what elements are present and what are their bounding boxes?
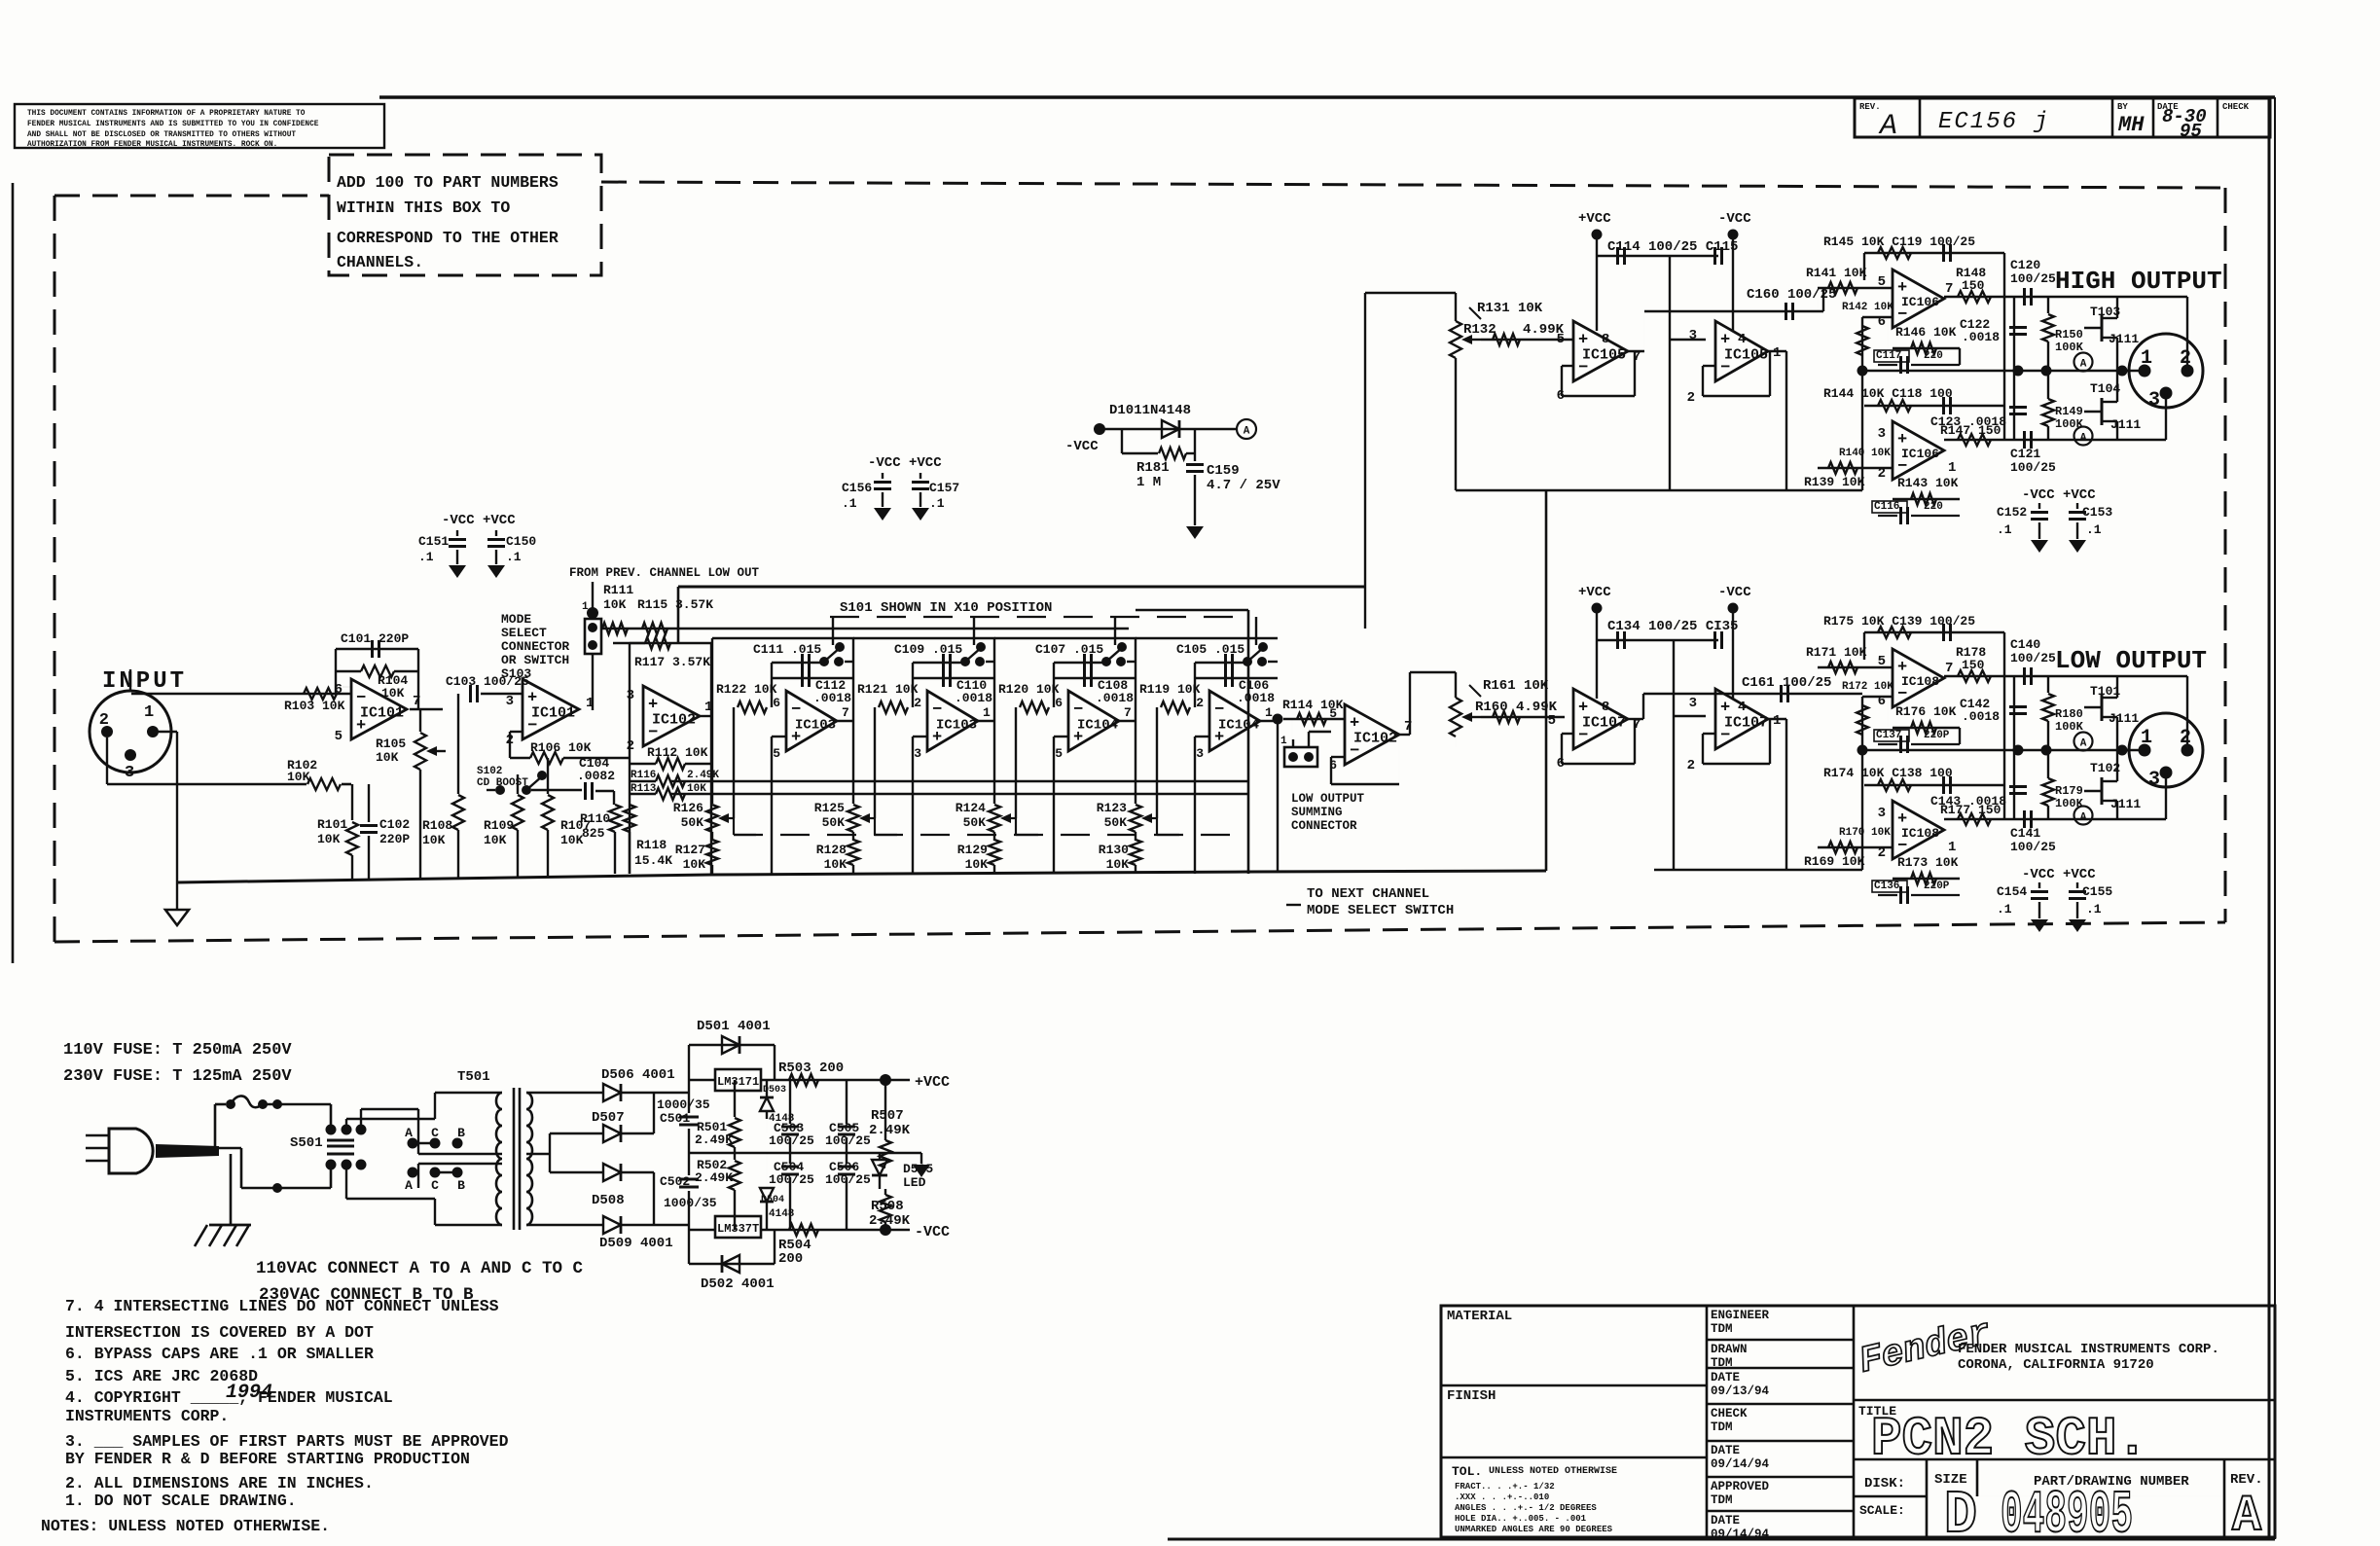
svg-text:10K: 10K [422, 833, 446, 847]
svg-text:A: A [2080, 738, 2087, 750]
svg-text:5: 5 [1548, 713, 1556, 729]
svg-text:FROM PREV. CHANNEL LOW OUT: FROM PREV. CHANNEL LOW OUT [569, 566, 760, 580]
svg-text:100K: 100K [2055, 341, 2084, 354]
svg-text:3: 3 [1878, 806, 1886, 821]
svg-text:R122 10K: R122 10K [716, 682, 777, 697]
svg-text:C159: C159 [1207, 463, 1240, 479]
svg-text:C107 .015: C107 .015 [1035, 642, 1103, 657]
svg-text:ANGLES . . .+.- 1/2 DEGREES: ANGLES . . .+.- 1/2 DEGREES [1455, 1503, 1597, 1513]
svg-text:S103: S103 [501, 666, 531, 681]
svg-text:HIGH OUTPUT: HIGH OUTPUT [2055, 267, 2222, 296]
svg-text:2: 2 [1687, 390, 1695, 406]
svg-text:C501: C501 [660, 1111, 690, 1126]
svg-text:1: 1 [144, 703, 154, 722]
svg-text:C134 100/25 CI35: C134 100/25 CI35 [1607, 619, 1738, 634]
svg-text:50K: 50K [822, 815, 846, 830]
svg-text:C117: C117 [1876, 350, 1901, 362]
svg-text:R171 10K: R171 10K [1806, 645, 1867, 660]
svg-text:1000/35: 1000/35 [664, 1196, 717, 1210]
svg-text:95: 95 [2180, 121, 2202, 142]
svg-text:.1: .1 [1997, 902, 2012, 917]
svg-text:R143 10K: R143 10K [1897, 476, 1959, 490]
svg-text:R140 10K: R140 10K [1839, 448, 1891, 459]
svg-text:R175 10K C139 100/25: R175 10K C139 100/25 [1823, 614, 1975, 629]
svg-text:100K: 100K [2055, 417, 2084, 431]
svg-text:CHECK: CHECK [2222, 102, 2250, 112]
svg-text:IC101: IC101 [531, 704, 575, 721]
svg-text:-VCC: -VCC [915, 1224, 950, 1240]
svg-text:R116: R116 [631, 770, 656, 781]
svg-text:6: 6 [1055, 696, 1063, 710]
svg-text:S101 SHOWN IN X10 POSITION: S101 SHOWN IN X10 POSITION [840, 600, 1052, 616]
svg-text:A: A [405, 1178, 413, 1193]
svg-text:T102: T102 [2090, 761, 2120, 775]
svg-text:C: C [431, 1178, 439, 1193]
svg-text:2: 2 [2180, 347, 2191, 370]
svg-text:J111: J111 [2109, 711, 2139, 726]
svg-text:R121 10K: R121 10K [857, 682, 919, 697]
svg-text:09/14/94: 09/14/94 [1711, 1528, 1770, 1541]
svg-text:LED: LED [903, 1175, 926, 1190]
svg-text:T104: T104 [2090, 381, 2120, 396]
svg-text:230V FUSE: T 125mA 250V: 230V FUSE: T 125mA 250V [63, 1067, 292, 1086]
svg-text:CHANNELS.: CHANNELS. [337, 253, 423, 271]
svg-text:1: 1 [582, 601, 589, 613]
svg-text:EC156 j: EC156 j [1938, 109, 2050, 135]
svg-text:J111: J111 [2110, 797, 2141, 811]
svg-text:C140: C140 [2010, 637, 2040, 652]
svg-text:R131 10K: R131 10K [1477, 301, 1543, 316]
svg-text:2.49K: 2.49K [687, 770, 719, 781]
svg-text:3: 3 [1689, 696, 1697, 711]
svg-text:09/14/94: 09/14/94 [1711, 1457, 1770, 1471]
svg-text:R117 3.57K: R117 3.57K [634, 655, 710, 669]
svg-text:LOW OUTPUT: LOW OUTPUT [2055, 646, 2207, 675]
svg-text:R113: R113 [631, 783, 657, 795]
svg-text:R145 10K C119 100/25: R145 10K C119 100/25 [1823, 234, 1975, 249]
svg-text:MODE: MODE [501, 612, 531, 627]
svg-text:C121: C121 [2010, 447, 2040, 461]
svg-text:.0082: .0082 [577, 769, 615, 783]
svg-text:R132: R132 [1463, 322, 1497, 338]
svg-text:R124: R124 [956, 801, 986, 815]
svg-text:APPROVED: APPROVED [1711, 1480, 1770, 1493]
svg-text:-VCC +VCC: -VCC +VCC [868, 455, 942, 471]
svg-text:UNMARKED ANGLES ARE 90 DEGREES: UNMARKED ANGLES ARE 90 DEGREES [1455, 1525, 1613, 1534]
svg-text:R103 10K: R103 10K [284, 699, 345, 713]
svg-text:IC105: IC105 [1724, 346, 1768, 363]
svg-text:100K: 100K [2055, 720, 2084, 734]
svg-text:.1: .1 [842, 496, 857, 511]
svg-text:R508: R508 [871, 1199, 904, 1214]
svg-text:+VCC: +VCC [1578, 211, 1611, 227]
svg-text:3: 3 [1196, 746, 1204, 761]
svg-text:5: 5 [335, 729, 343, 744]
svg-text:.1: .1 [929, 496, 945, 511]
svg-text:5: 5 [1329, 706, 1337, 721]
svg-text:100/25: 100/25 [2010, 271, 2056, 286]
svg-text:ADD 100 TO PART NUMBERS: ADD 100 TO PART NUMBERS [337, 173, 559, 192]
svg-text:IC102: IC102 [1353, 730, 1397, 746]
svg-text:-VCC +VCC: -VCC +VCC [2022, 487, 2096, 503]
svg-text:D: D [1944, 1481, 1977, 1541]
svg-text:220P: 220P [379, 832, 410, 846]
svg-text:2. ALL DIMENSIONS ARE IN IN: 2. ALL DIMENSIONS ARE IN INCHES. [65, 1474, 374, 1492]
svg-text:1: 1 [2141, 347, 2152, 370]
svg-text:100/25: 100/25 [2010, 840, 2056, 854]
svg-text:R128: R128 [816, 843, 847, 857]
svg-text:10K: 10K [965, 857, 989, 872]
svg-text:.0018: .0018 [1096, 691, 1134, 705]
svg-text:R101: R101 [317, 817, 347, 832]
svg-text:CONNECTOR: CONNECTOR [501, 639, 569, 654]
svg-text:CORRESPOND TO THE OTHER: CORRESPOND TO THE OTHER [337, 229, 559, 247]
svg-text:AND SHALL NOT BE DISCLOSED OR: AND SHALL NOT BE DISCLOSED OR TRANSMITTE… [27, 131, 296, 139]
svg-text:3: 3 [2148, 389, 2160, 412]
svg-text:TOL.: TOL. [1452, 1464, 1482, 1479]
svg-text:DATE: DATE [1711, 1514, 1740, 1528]
svg-text:2: 2 [1196, 696, 1204, 710]
svg-text:S102: S102 [477, 766, 502, 777]
svg-text:C156: C156 [842, 481, 872, 495]
svg-text:7: 7 [1124, 705, 1132, 720]
svg-text:BY FENDER R & D BEFORE STARTIN: BY FENDER R & D BEFORE STARTING PRODUCTI… [65, 1450, 470, 1468]
svg-text:R144 10K C118 100: R144 10K C118 100 [1823, 386, 1953, 401]
svg-text:PCN2 SCH.: PCN2 SCH. [1871, 1408, 2147, 1470]
svg-text:R160 4.99K: R160 4.99K [1475, 700, 1558, 715]
svg-text:R129: R129 [957, 843, 988, 857]
svg-text:-VCC +VCC: -VCC +VCC [442, 513, 516, 528]
svg-text:C109 .015: C109 .015 [894, 642, 962, 657]
svg-text:100K: 100K [2055, 797, 2084, 810]
svg-text:IC108: IC108 [1901, 674, 1939, 689]
svg-text:IC108: IC108 [1901, 826, 1939, 841]
svg-text:15.4K: 15.4K [634, 853, 672, 868]
svg-text:R142 10K: R142 10K [1842, 302, 1893, 313]
svg-text:R118: R118 [636, 838, 667, 852]
svg-text:R126: R126 [673, 801, 703, 815]
svg-text:S501: S501 [290, 1135, 323, 1151]
svg-text:LOW OUTPUT: LOW OUTPUT [1291, 792, 1365, 806]
svg-text:220P: 220P [1924, 730, 1950, 741]
svg-text:ENGINEER: ENGINEER [1711, 1309, 1770, 1322]
svg-text:R109: R109 [484, 818, 514, 833]
svg-text:D1011N4148: D1011N4148 [1109, 403, 1191, 418]
svg-text:2: 2 [627, 738, 634, 754]
svg-text:.0018: .0018 [813, 691, 851, 705]
svg-text:CHECK: CHECK [1711, 1407, 1748, 1420]
svg-text:R170 10K: R170 10K [1839, 827, 1891, 839]
svg-text:D508: D508 [592, 1193, 625, 1208]
svg-text:IC106: IC106 [1901, 295, 1939, 309]
svg-text:1: 1 [1265, 705, 1273, 720]
svg-text:C155: C155 [2082, 884, 2112, 899]
svg-text:R115 3.57K: R115 3.57K [637, 597, 713, 612]
svg-text:SCALE:: SCALE: [1859, 1503, 1905, 1518]
svg-text:C101 220P: C101 220P [341, 631, 409, 646]
svg-text:110VAC CONNECT A TO A AND C TO: 110VAC CONNECT A TO A AND C TO C [256, 1259, 584, 1278]
svg-text:MATERIAL: MATERIAL [1447, 1309, 1512, 1324]
svg-text:R110: R110 [580, 811, 610, 826]
svg-text:10K: 10K [376, 750, 399, 765]
svg-text:R125: R125 [814, 801, 845, 815]
svg-text:UNLESS NOTED OTHERWISE: UNLESS NOTED OTHERWISE [1489, 1466, 1617, 1477]
svg-text:R150: R150 [2055, 328, 2083, 342]
svg-text:4: 4 [1738, 700, 1746, 715]
svg-text:FINISH: FINISH [1447, 1388, 1496, 1404]
svg-text:R149: R149 [2055, 405, 2083, 418]
svg-text:R176 10K: R176 10K [1895, 704, 1957, 719]
svg-text:B: B [457, 1178, 465, 1193]
svg-text:100/25: 100/25 [2010, 651, 2056, 665]
svg-text:3: 3 [506, 694, 514, 709]
svg-text:IC104: IC104 [1218, 717, 1259, 733]
svg-text:D501 4001: D501 4001 [697, 1019, 771, 1034]
svg-text:10K: 10K [683, 857, 706, 872]
svg-text:IC102: IC102 [652, 711, 696, 728]
svg-text:3: 3 [1878, 426, 1886, 442]
svg-text:3: 3 [627, 688, 634, 703]
svg-text:LM3171: LM3171 [717, 1075, 759, 1089]
svg-text:AUTHORIZATION FROM FENDER MUSI: AUTHORIZATION FROM FENDER MUSICAL INSTRU… [27, 141, 277, 149]
svg-text:048905: 048905 [2001, 1481, 2133, 1541]
svg-text:INPUT: INPUT [102, 668, 187, 695]
svg-text:WITHIN THIS BOX TO: WITHIN THIS BOX TO [337, 198, 510, 217]
svg-text:IC103: IC103 [795, 717, 836, 733]
svg-text:.1: .1 [2086, 902, 2102, 917]
svg-text:1: 1 [1773, 345, 1781, 361]
svg-text:-VCC +VCC: -VCC +VCC [2022, 867, 2096, 882]
svg-text:CONNECTOR: CONNECTOR [1291, 819, 1357, 833]
svg-text:3: 3 [914, 746, 921, 761]
svg-text:A: A [1244, 426, 1250, 438]
svg-text:IC107: IC107 [1582, 714, 1626, 731]
svg-text:R112 10K: R112 10K [647, 745, 708, 760]
svg-text:NOTES: UNLESS NOTED OTHERWISE.: NOTES: UNLESS NOTED OTHERWISE. [41, 1517, 330, 1535]
svg-text:D509 4001: D509 4001 [599, 1236, 673, 1251]
svg-text:09/13/94: 09/13/94 [1711, 1384, 1770, 1398]
svg-text:SELECT: SELECT [501, 626, 547, 640]
svg-text:R161 10K: R161 10K [1483, 678, 1549, 694]
svg-text:C154: C154 [1997, 884, 2027, 899]
svg-text:TDM: TDM [1711, 1420, 1733, 1434]
svg-text:R119 10K: R119 10K [1139, 682, 1201, 697]
svg-text:.XXX . . .+.-..010: .XXX . . .+.-..010 [1455, 1492, 1549, 1502]
svg-text:J111: J111 [2109, 332, 2139, 346]
svg-text:C120: C120 [2010, 258, 2040, 272]
svg-text:BY: BY [2117, 102, 2128, 112]
svg-text:C141: C141 [2010, 826, 2040, 841]
svg-text:MODE SELECT SWITCH: MODE SELECT SWITCH [1307, 903, 1454, 918]
svg-text:10K: 10K [560, 833, 584, 847]
svg-text:TDM: TDM [1711, 1322, 1733, 1336]
svg-text:REV.: REV. [2230, 1472, 2263, 1488]
svg-text:INTERSECTION IS COVERED BY A D: INTERSECTION IS COVERED BY A DOT [65, 1323, 374, 1342]
svg-text:IC105: IC105 [1582, 346, 1626, 363]
svg-text:OR SWITCH: OR SWITCH [501, 653, 569, 667]
svg-text:CORONA, CALIFORNIA 91720: CORONA, CALIFORNIA 91720 [1958, 1357, 2154, 1373]
svg-text:5: 5 [773, 746, 780, 761]
svg-text:C151: C151 [418, 534, 449, 549]
svg-text:C105 .015: C105 .015 [1176, 642, 1244, 657]
svg-text:2: 2 [1687, 758, 1695, 773]
svg-text:A: A [2080, 433, 2087, 445]
svg-text:R179: R179 [2055, 784, 2083, 798]
svg-text:5: 5 [1055, 746, 1063, 761]
svg-text:.1: .1 [418, 550, 434, 564]
svg-text:C137: C137 [1876, 730, 1901, 741]
svg-text:R169 10K: R169 10K [1804, 854, 1865, 869]
svg-text:1994: 1994 [226, 1382, 272, 1404]
svg-text:1: 1 [1280, 736, 1287, 747]
svg-text:3: 3 [1689, 328, 1697, 343]
svg-text:C116: C116 [1874, 501, 1899, 513]
svg-text:-VCC: -VCC [1718, 585, 1751, 600]
svg-text:INSTRUMENTS CORP.: INSTRUMENTS CORP. [65, 1407, 229, 1425]
svg-text:6: 6 [773, 696, 780, 710]
svg-text:FRACT.. . .+.- 1/32: FRACT.. . .+.- 1/32 [1455, 1482, 1555, 1492]
svg-text:150: 150 [1962, 278, 1985, 293]
svg-text:.0018: .0018 [1237, 691, 1275, 705]
svg-text:R108: R108 [422, 818, 452, 833]
svg-text:C502: C502 [660, 1174, 690, 1189]
svg-text:1 M: 1 M [1136, 475, 1161, 490]
svg-text:R146 10K: R146 10K [1895, 325, 1957, 340]
svg-text:LM337T: LM337T [717, 1222, 759, 1236]
svg-text:A: A [1878, 110, 1897, 143]
svg-text:R139 10K: R139 10K [1804, 475, 1865, 489]
svg-text:.1: .1 [1997, 522, 2012, 537]
svg-text:SUMMING: SUMMING [1291, 806, 1343, 819]
svg-text:IC104: IC104 [1077, 717, 1118, 733]
svg-text:C150: C150 [506, 534, 536, 549]
svg-text:10K: 10K [381, 686, 405, 701]
svg-text:DATE: DATE [1711, 1444, 1740, 1457]
svg-text:3: 3 [2148, 769, 2160, 791]
svg-text:C161 100/25: C161 100/25 [1742, 675, 1831, 691]
svg-text:6. BYPASS CAPS ARE .1 OR S: 6. BYPASS CAPS ARE .1 OR SMALLER [65, 1345, 374, 1363]
svg-text:IC107: IC107 [1724, 714, 1768, 731]
svg-text:1: 1 [1948, 840, 1956, 855]
svg-text:+VCC: +VCC [1578, 585, 1611, 600]
svg-text:D505: D505 [903, 1162, 933, 1176]
svg-text:10K: 10K [1106, 857, 1130, 872]
svg-text:THIS DOCUMENT CONTAINS INFORM: THIS DOCUMENT CONTAINS INFORMATION OF A … [27, 110, 306, 118]
svg-text:10K: 10K [484, 833, 507, 847]
svg-text:220: 220 [1924, 350, 1943, 362]
svg-text:3. ___ SAMPLES OF FIRST PAR: 3. ___ SAMPLES OF FIRST PARTS MUST BE AP… [65, 1432, 509, 1451]
svg-text:10K: 10K [824, 857, 847, 872]
svg-text:IC103: IC103 [936, 717, 977, 733]
svg-text:.0018: .0018 [955, 691, 992, 705]
svg-text:4: 4 [1738, 332, 1746, 347]
svg-text:C157: C157 [929, 481, 959, 495]
svg-text:7: 7 [1945, 281, 1953, 297]
svg-text:825: 825 [582, 826, 605, 841]
svg-text:50K: 50K [1104, 815, 1128, 830]
svg-text:C136: C136 [1874, 881, 1899, 892]
svg-text:50K: 50K [963, 815, 987, 830]
svg-text:+VCC: +VCC [915, 1074, 950, 1091]
svg-text:R174 10K C138 100: R174 10K C138 100 [1823, 766, 1953, 780]
svg-text:TDM: TDM [1711, 1493, 1733, 1507]
svg-text:D507: D507 [592, 1110, 625, 1126]
svg-text:C111 .015: C111 .015 [753, 642, 821, 657]
svg-text:8: 8 [1602, 332, 1609, 347]
svg-text:R141 10K: R141 10K [1806, 266, 1867, 280]
svg-text:1000/35: 1000/35 [657, 1097, 710, 1112]
svg-text:R180: R180 [2055, 707, 2083, 721]
svg-text:3: 3 [125, 764, 134, 782]
svg-text:C152: C152 [1997, 505, 2027, 520]
svg-text:2: 2 [2180, 727, 2191, 749]
svg-text:4.7 / 25V: 4.7 / 25V [1207, 478, 1280, 493]
svg-text:200: 200 [778, 1251, 803, 1267]
svg-text:T501: T501 [457, 1069, 490, 1085]
svg-text:2: 2 [99, 711, 109, 730]
svg-text:220P: 220P [1924, 881, 1950, 892]
svg-text:IC101: IC101 [360, 704, 404, 721]
svg-text:1: 1 [1773, 713, 1781, 729]
svg-text:4.99K: 4.99K [1523, 322, 1565, 338]
svg-text:R111: R111 [603, 583, 633, 597]
svg-text:FENDER MUSICAL INSTRUMENTS COR: FENDER MUSICAL INSTRUMENTS CORP. [1958, 1342, 2219, 1357]
svg-text:50K: 50K [681, 815, 704, 830]
svg-text:110V FUSE: T 250mA 250V: 110V FUSE: T 250mA 250V [63, 1041, 292, 1060]
svg-text:8: 8 [1602, 700, 1609, 715]
svg-text:DISK:: DISK: [1864, 1476, 1905, 1492]
svg-text:.1: .1 [506, 550, 522, 564]
svg-text:1. DO NOT SCALE DRAWING.: 1. DO NOT SCALE DRAWING. [65, 1492, 297, 1510]
svg-text:DRAWN: DRAWN [1711, 1343, 1748, 1356]
svg-text:J111: J111 [2110, 417, 2141, 432]
svg-text:.0018: .0018 [1962, 330, 2000, 344]
svg-text:R172 10K: R172 10K [1842, 681, 1893, 693]
svg-text:220: 220 [1924, 501, 1943, 513]
svg-text:2.49K: 2.49K [869, 1123, 911, 1138]
svg-text:A: A [2080, 812, 2087, 824]
svg-text:R120 10K: R120 10K [998, 682, 1060, 697]
svg-text:100/25: 100/25 [2010, 460, 2056, 475]
svg-text:T101: T101 [2090, 684, 2120, 699]
svg-text:REV.: REV. [1859, 102, 1881, 112]
svg-text:R507: R507 [871, 1108, 904, 1124]
svg-text:HOLE DIA.. +..005. - .001: HOLE DIA.. +..005. - .001 [1455, 1514, 1587, 1524]
svg-text:1: 1 [1948, 460, 1956, 476]
svg-text:7. 4 INTERSECTING LINES DO: 7. 4 INTERSECTING LINES DO NOT CONNECT U… [65, 1297, 499, 1315]
svg-text:R173 10K: R173 10K [1897, 855, 1959, 870]
svg-text:A: A [2080, 359, 2087, 371]
svg-text:7: 7 [1945, 661, 1953, 676]
svg-text:7: 7 [842, 705, 849, 720]
svg-text:R123: R123 [1097, 801, 1127, 815]
svg-text:1: 1 [2141, 727, 2152, 749]
svg-text:A: A [2232, 1488, 2262, 1541]
svg-text:-VCC: -VCC [1718, 211, 1751, 227]
svg-text:C153: C153 [2082, 505, 2112, 520]
svg-text:10K: 10K [603, 597, 627, 612]
svg-text:1: 1 [983, 705, 991, 720]
svg-text:R105: R105 [376, 737, 406, 751]
svg-text:C102: C102 [379, 817, 410, 832]
svg-text:150: 150 [1962, 658, 1985, 672]
svg-text:.1: .1 [2086, 522, 2102, 537]
svg-text:R181: R181 [1136, 460, 1170, 476]
svg-text:DATE: DATE [1711, 1371, 1740, 1384]
svg-text:-VCC: -VCC [1065, 439, 1099, 454]
svg-text:IC106: IC106 [1901, 447, 1939, 461]
svg-text:D506 4001: D506 4001 [601, 1067, 675, 1083]
